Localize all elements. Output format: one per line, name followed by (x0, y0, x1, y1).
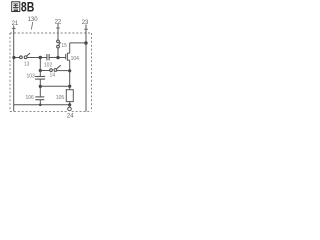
svg-text:106: 106 (26, 95, 35, 101)
terminal 24 circle (68, 107, 72, 111)
terminal 24 stub (69, 105, 71, 107)
shunt column x40: wire (39, 58, 41, 105)
node junction branch1 / shunt column (39, 56, 42, 59)
svg-text:8B: 8B (21, 0, 34, 15)
node junction drain / right rail (84, 41, 87, 44)
wire terminal 22 (57, 24, 59, 41)
figure title 图8B (12, 2, 20, 12)
svg-text:103: 103 (27, 74, 36, 80)
leader for 130 (31, 22, 33, 30)
tick on wire 21 (12, 28, 16, 30)
node junction branch1 / wire22 (56, 56, 59, 59)
capacitor C106 (35, 97, 44, 100)
node junction shunt column / branch2 (39, 69, 42, 72)
capacitor C102 (series on branch1) (47, 54, 49, 60)
switch 14 (on branch2) (50, 65, 61, 71)
node junction left rail / branch1 (12, 56, 15, 59)
switch 13 (on branch1) (20, 53, 31, 59)
svg-text:13: 13 (24, 61, 30, 67)
svg-text:21: 21 (12, 21, 19, 27)
transistor 104 (66, 43, 86, 90)
wire terminal 23 (right rail) (85, 25, 87, 112)
svg-text:14: 14 (50, 73, 56, 79)
switch 15 (vertical, on wire22) (57, 40, 61, 56)
dashed module border 130 (10, 33, 92, 111)
tick on wire 22 (56, 27, 60, 29)
svg-text:24: 24 (67, 113, 74, 119)
node junction branch2 / source line (68, 69, 71, 72)
wire branch1 horizontal y57.5 (14, 57, 66, 59)
node junction shunt column / branch3 (39, 85, 42, 88)
capacitor C103 (35, 77, 45, 80)
svg-text:130: 130 (28, 17, 39, 23)
svg-text:104: 104 (71, 56, 80, 62)
svg-text:23: 23 (82, 20, 89, 26)
node junction shunt column / bottom rail (39, 104, 42, 107)
node junction branch3 / source line (68, 85, 71, 88)
svg-text:102: 102 (44, 63, 53, 69)
wire bottom rail y104.8 (14, 104, 70, 106)
wire terminal 21 (left rail) (13, 26, 15, 112)
tick on wire 23 (84, 28, 88, 30)
wire branch2 y70.5 (40, 70, 69, 72)
wire resistor bottom lead (69, 102, 71, 105)
node junction resistor / bottom rail (68, 103, 71, 106)
wire branch3 y86.3 (40, 85, 69, 87)
svg-text:105: 105 (56, 95, 65, 101)
resistor R105 (66, 90, 73, 102)
svg-text:15: 15 (61, 43, 67, 49)
